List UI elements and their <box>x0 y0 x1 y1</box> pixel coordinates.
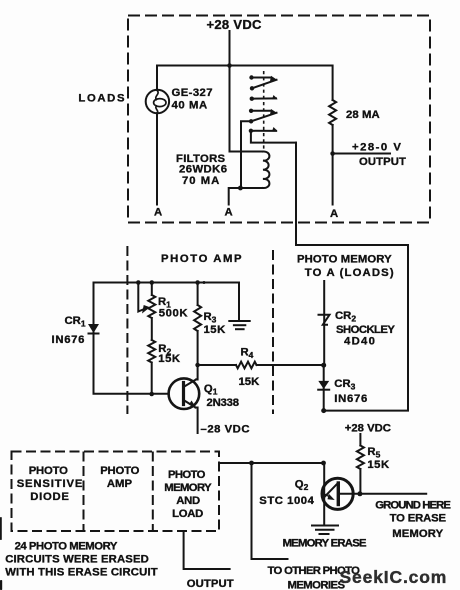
node rail junctions <box>136 280 141 285</box>
wire memory feed down-right-down <box>296 143 408 411</box>
node bus junction <box>227 63 232 68</box>
relay contact K1b <box>250 97 254 101</box>
wire lamp to A <box>156 113 158 204</box>
node CR2/CR3/R4 junction <box>321 363 326 368</box>
resistor R4 15K <box>198 362 324 369</box>
SEC-MID <box>52 143 409 436</box>
wire Q2 output <box>340 493 427 495</box>
node R3/R4/collector junction <box>195 363 200 368</box>
svg-text:OUTPUT: OUTPUT <box>359 156 406 168</box>
diode CR1 1N676 <box>88 324 99 333</box>
svg-text:24 PHOTO MEMORY: 24 PHOTO MEMORY <box>15 541 118 553</box>
relay coil FILTORS 26WDK6 <box>263 151 269 188</box>
svg-text:TO ERASE: TO ERASE <box>390 513 447 525</box>
ground (memory erase) <box>312 525 338 527</box>
svg-text:AND: AND <box>176 495 200 507</box>
wire top bus <box>157 66 333 101</box>
svg-text:TO A (LOADS): TO A (LOADS) <box>305 267 395 279</box>
svg-text:15K: 15K <box>204 324 227 336</box>
wire photo amp top rail <box>94 283 240 322</box>
resistor R5 15K <box>357 434 364 494</box>
block diagram dashed outline <box>12 452 220 532</box>
wire +28 VDC feed <box>230 31 264 152</box>
resistor R3 15K <box>194 283 201 366</box>
wire CR2-CR3 <box>323 365 325 410</box>
svg-text:LOAD: LOAD <box>172 508 203 520</box>
svg-text:AMP: AMP <box>107 478 133 490</box>
svg-text:–28 VDC: –28 VDC <box>201 424 251 436</box>
svg-text:SHOCKLEY: SHOCKLEY <box>336 324 395 336</box>
node coil bottom junction <box>238 186 243 191</box>
svg-text:PHOTO: PHOTO <box>29 465 68 477</box>
svg-text:PHOTO: PHOTO <box>100 465 139 477</box>
node output junction <box>330 151 335 156</box>
SEC-BOT <box>5 423 451 590</box>
svg-text:PHOTO AMP: PHOTO AMP <box>161 253 243 265</box>
block divider 1 <box>83 452 85 532</box>
svg-text:MEMORY ERASE: MEMORY ERASE <box>283 538 367 550</box>
relay contact K1a <box>249 75 253 79</box>
wire output stub <box>184 531 230 569</box>
svg-text:GROUND HERE: GROUND HERE <box>375 500 451 512</box>
wire 28MA to A <box>332 125 334 205</box>
block divider 2 <box>152 452 154 532</box>
resistor R2 15K <box>148 340 155 394</box>
svg-text:IN676: IN676 <box>334 393 368 405</box>
node other-memories junction <box>249 461 254 466</box>
wire coil bottom to A <box>229 188 263 205</box>
svg-text:SENSITIVE: SENSITIVE <box>17 478 84 490</box>
svg-text:CIRCUITS WERE ERASED: CIRCUITS WERE ERASED <box>5 554 149 566</box>
node CR3 bottom junction <box>321 408 326 413</box>
svg-text:40 MA: 40 MA <box>172 100 208 112</box>
node rail blob <box>203 281 206 284</box>
photo amp boundary dashed left <box>126 246 128 414</box>
svg-text:26WDK6: 26WDK6 <box>179 164 227 176</box>
svg-text:A: A <box>225 207 233 219</box>
diode CR3 1N676 <box>318 381 329 389</box>
svg-text:15K: 15K <box>367 459 390 471</box>
svg-text:A: A <box>154 207 162 219</box>
relay actuator dashed link <box>263 71 265 150</box>
wire base rail <box>94 393 169 395</box>
node R5 junction <box>357 491 362 496</box>
wire contact K2b arm to memory line <box>251 131 296 143</box>
svg-text:SeekIC.com: SeekIC.com <box>340 567 448 587</box>
svg-text:2N338: 2N338 <box>207 397 239 409</box>
wire block to erase line <box>219 462 324 464</box>
svg-text:15K: 15K <box>158 353 181 365</box>
svg-text:+28-0 V: +28-0 V <box>352 142 402 154</box>
svg-text:28 MA: 28 MA <box>346 109 380 121</box>
svg-text:+28 VDC: +28 VDC <box>345 423 391 435</box>
potentiometer R1 500K <box>148 283 155 341</box>
svg-text:GE-327: GE-327 <box>172 87 213 99</box>
svg-text:500K: 500K <box>159 308 189 320</box>
scan artifact left edge <box>0 517 2 540</box>
wire Q2 left lead <box>323 463 325 524</box>
svg-text:MEMORY: MEMORY <box>164 482 212 494</box>
photo amp boundary dashed right <box>272 250 274 414</box>
diode CR2 SHOCKLEY 4D40 <box>319 315 330 325</box>
lamp GE-327 <box>146 90 169 113</box>
svg-text:4D40: 4D40 <box>344 336 376 348</box>
wire to other photo memories <box>252 463 288 559</box>
svg-text:DIODE: DIODE <box>30 491 69 503</box>
wire CR2 branch <box>323 281 325 365</box>
transistor Q2 STC 1004 <box>322 478 353 509</box>
node R2 base junction <box>149 392 154 397</box>
wire CR1 branch <box>93 283 95 394</box>
svg-text:15K: 15K <box>239 376 261 388</box>
svg-text:OUTPUT: OUTPUT <box>187 578 234 590</box>
svg-text:+28 VDC: +28 VDC <box>207 17 263 32</box>
svg-text:PHOTO MEMORY: PHOTO MEMORY <box>297 254 392 266</box>
wire contact K2 pivot to coil-bottom node <box>241 121 251 188</box>
relay enclosure dashed box <box>128 16 430 223</box>
R1 wiper arrow <box>138 283 143 312</box>
ground (photo amp) <box>229 320 249 322</box>
transistor Q1 2N338 <box>169 378 200 409</box>
svg-text:PHOTO: PHOTO <box>168 469 206 481</box>
svg-text:LOADS: LOADS <box>78 93 126 105</box>
svg-text:IN676: IN676 <box>52 334 86 346</box>
svg-text:STC 1004: STC 1004 <box>259 495 314 507</box>
relay contact K2b <box>249 129 253 133</box>
node Q2 branch junction <box>321 461 326 466</box>
wire output stub <box>333 153 390 155</box>
resistor 28 MA <box>329 100 336 125</box>
svg-text:MEMORY: MEMORY <box>392 528 443 540</box>
relay contact K2a <box>249 109 253 113</box>
svg-text:WITH THIS ERASE CIRCUIT: WITH THIS ERASE CIRCUIT <box>5 567 158 579</box>
svg-text:MEMORIES: MEMORIES <box>288 580 346 590</box>
svg-text:70 MA: 70 MA <box>182 175 220 187</box>
svg-text:A: A <box>330 208 338 220</box>
SEC-TOP <box>78 16 430 223</box>
